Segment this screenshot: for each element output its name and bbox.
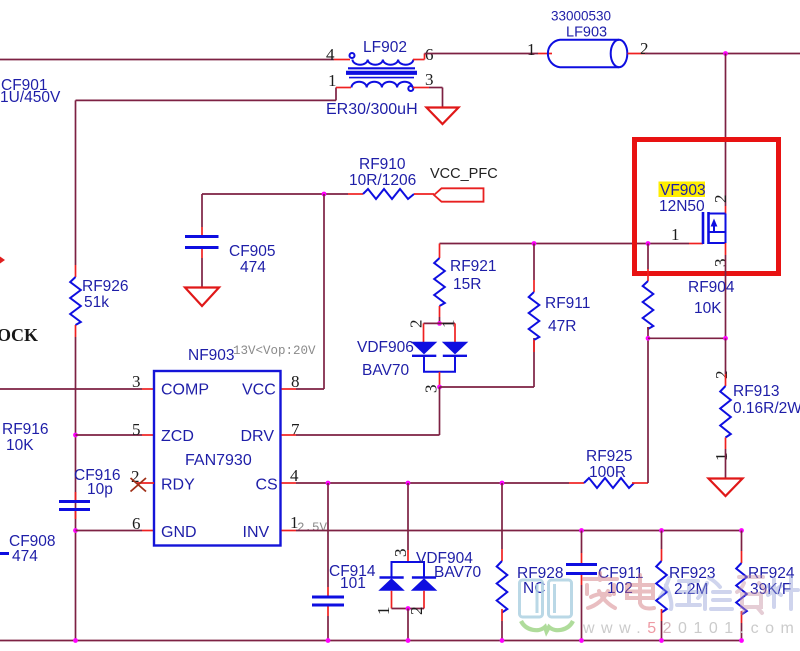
svg-text:3: 3 bbox=[425, 70, 434, 89]
wire RF921 to diode node bbox=[439, 317, 441, 323]
svg-text:51k: 51k bbox=[84, 294, 109, 311]
svg-text:RDY: RDY bbox=[161, 477, 195, 494]
svg-text:RF911: RF911 bbox=[545, 295, 590, 312]
ground symbol under RF913 bbox=[709, 479, 743, 497]
svg-text:10K: 10K bbox=[694, 300, 722, 317]
resistor RF921 bbox=[434, 258, 445, 306]
svg-text:CS: CS bbox=[256, 477, 278, 494]
wire jog pin6 to LF903 bbox=[424, 54, 426, 60]
wire CF901 node to LF902 pin 1 bbox=[76, 88, 352, 101]
resistor RF923 top lead bbox=[661, 531, 663, 562]
junction VDF904 anodes bbox=[406, 606, 411, 611]
svg-text:1: 1 bbox=[671, 225, 680, 244]
svg-text:VCC: VCC bbox=[242, 382, 276, 399]
wire cathode node to RF911 bottom bbox=[440, 386, 535, 388]
transistor VF903 highlighted reference bbox=[659, 182, 706, 200]
capacitor CF916 plates bbox=[59, 492, 90, 519]
svg-text:5: 5 bbox=[132, 420, 141, 439]
wire pin6 to LF903 pin 1 bbox=[425, 53, 539, 55]
transistor VF903 MOSFET symbol bbox=[703, 212, 726, 244]
highlight box around VF903 bbox=[635, 140, 779, 274]
svg-text:RF910: RF910 bbox=[359, 156, 406, 173]
wire drain column down bbox=[725, 54, 727, 207]
watermark chinese characters bbox=[584, 573, 798, 613]
wire VDF904 to rail bbox=[407, 609, 409, 641]
svg-text:15R: 15R bbox=[453, 276, 481, 293]
wire ZCD to IC bbox=[76, 434, 143, 436]
resistor RF911 stub top bbox=[533, 244, 535, 293]
junction node at top of MOSFET drain column bbox=[723, 51, 728, 56]
svg-text:474: 474 bbox=[12, 548, 38, 565]
svg-text:4: 4 bbox=[326, 45, 335, 64]
junction rail at RF923 bbox=[659, 638, 664, 643]
resistor RF926 stub bottom bbox=[75, 325, 77, 337]
svg-text:7: 7 bbox=[291, 420, 300, 439]
svg-text:10p: 10p bbox=[87, 481, 113, 498]
svg-text:474: 474 bbox=[240, 259, 266, 276]
svg-text:NF903: NF903 bbox=[188, 347, 235, 364]
svg-text:BAV70: BAV70 bbox=[434, 564, 481, 581]
svg-text:RF921: RF921 bbox=[450, 258, 497, 275]
resistor RF925 stub right bbox=[632, 482, 648, 484]
op-amp controller IC NF903 FAN7930 body bbox=[154, 371, 281, 546]
junction RF928 top bbox=[500, 481, 505, 486]
junction RF904 bottom bbox=[646, 336, 651, 341]
wire CF905 to ground bbox=[201, 258, 203, 287]
wire VCC column bbox=[282, 194, 325, 389]
COMP pin stub bbox=[142, 388, 154, 390]
wire source column down bbox=[725, 255, 727, 338]
junction rail at left column bbox=[73, 638, 78, 643]
resistor RF904 bbox=[643, 281, 654, 329]
junction rail at RF928 bbox=[500, 638, 505, 643]
junction source node bbox=[723, 336, 728, 341]
ZCD pin stub bbox=[142, 434, 154, 436]
svg-text:CF905: CF905 bbox=[229, 243, 276, 260]
pin 4 stub of LF902 bbox=[334, 59, 350, 61]
resistor RF925 bbox=[584, 478, 634, 488]
capacitor CF908 plate fragment at edge bbox=[0, 552, 9, 555]
resistor RF904 bottom lead bbox=[647, 327, 649, 338]
watermark book logo bbox=[520, 580, 572, 617]
resistor RF910 bbox=[363, 189, 414, 199]
resistor RF921 stub bottom bbox=[439, 306, 441, 317]
junction rail at RF924 bbox=[739, 638, 744, 643]
svg-text:1: 1 bbox=[527, 40, 536, 59]
resistor RF926 stub top bbox=[75, 265, 77, 277]
junction CF914 top bbox=[326, 481, 331, 486]
svg-text:6: 6 bbox=[132, 514, 141, 533]
wire DRV to cathode node bbox=[282, 387, 440, 435]
dual diode VDF904 top lead bbox=[407, 483, 409, 562]
drain stub red bbox=[725, 206, 727, 214]
svg-text:1: 1 bbox=[712, 453, 731, 462]
junction VDF904 top bbox=[406, 481, 411, 486]
svg-text:VCC_PFC: VCC_PFC bbox=[430, 166, 498, 182]
wire left column to bottom rail bbox=[75, 337, 77, 641]
svg-text:3: 3 bbox=[711, 259, 730, 268]
resistor RF928 top lead bbox=[501, 483, 503, 561]
transformer LF902 bottom winding bbox=[352, 82, 414, 91]
junction RF904 top / gate node bbox=[646, 241, 651, 246]
svg-text:DRV: DRV bbox=[241, 428, 275, 445]
resistor RF911 bottom lead bbox=[533, 338, 535, 387]
junction RF924 top bbox=[739, 528, 744, 533]
svg-text:2.5V: 2.5V bbox=[297, 521, 328, 535]
svg-text:VF903: VF903 bbox=[660, 182, 706, 199]
resistor RF904 top lead bbox=[647, 244, 649, 282]
red arrow fragment at left edge bbox=[0, 257, 5, 264]
resistor RF924 top lead bbox=[741, 531, 743, 564]
resistor RF925 stub left bbox=[569, 482, 584, 484]
svg-text:GND: GND bbox=[161, 524, 197, 541]
svg-text:LF903: LF903 bbox=[566, 25, 607, 41]
junction ZCD line on left column bbox=[73, 433, 78, 438]
wire CS line bbox=[282, 482, 570, 484]
svg-text:100R: 100R bbox=[589, 464, 626, 481]
junction VDF906 anode bracket bbox=[437, 321, 442, 326]
svg-text:1: 1 bbox=[374, 607, 393, 616]
resistor RF910 stub left bbox=[348, 193, 363, 195]
GND pin stub bbox=[142, 530, 154, 532]
capacitor CF911 top lead bbox=[581, 531, 583, 564]
wire RF925 up to source node bbox=[647, 338, 649, 483]
resistor RF924 bottom lead bbox=[741, 611, 743, 641]
junction VCC column on PFC rail bbox=[322, 192, 327, 197]
dual diode VDF906 bbox=[411, 323, 469, 387]
svg-text:10R/1206: 10R/1206 bbox=[349, 172, 416, 189]
svg-text:LF902: LF902 bbox=[363, 39, 407, 56]
wire top rail to LF902 pin 4 bbox=[0, 59, 334, 61]
svg-text:2: 2 bbox=[712, 371, 731, 380]
wire left column down from CF901 node bbox=[75, 100, 77, 265]
COMP wire from left edge bbox=[0, 388, 142, 390]
svg-text:3: 3 bbox=[391, 549, 410, 558]
pin 1 stub of LF903 bbox=[538, 53, 552, 55]
svg-text:1: 1 bbox=[439, 320, 458, 329]
pin 6 stub of LF902 bbox=[413, 59, 425, 61]
resistor RF913 bbox=[720, 386, 731, 438]
svg-text:RF904: RF904 bbox=[688, 279, 735, 296]
junction CF911 top bbox=[579, 528, 584, 533]
transformer LF902 top winding bbox=[350, 53, 414, 65]
wire pin 3 of LF902 to ground bbox=[413, 88, 443, 108]
svg-text:1: 1 bbox=[328, 71, 337, 90]
wire source cross link bbox=[648, 337, 726, 339]
dual diode VDF904 bbox=[378, 562, 437, 609]
ground symbol under CF905 bbox=[185, 288, 219, 307]
svg-text:101: 101 bbox=[340, 575, 366, 592]
svg-text:6: 6 bbox=[425, 45, 434, 64]
capacitor CF914 bbox=[312, 597, 344, 605]
junction VDF906 cathode node bbox=[437, 385, 442, 390]
junction GND line on left column bbox=[73, 528, 78, 533]
pin 2 stub of LF903 bbox=[628, 53, 646, 55]
junction RF923 top bbox=[659, 528, 664, 533]
resistor RF924 bbox=[736, 563, 747, 615]
svg-text:RF916: RF916 bbox=[2, 421, 49, 438]
capacitor CF911 bottom lead bbox=[581, 575, 583, 641]
svg-text:OCK: OCK bbox=[0, 325, 38, 345]
gate drive line bbox=[440, 243, 690, 245]
junction rail at CF911 bbox=[579, 638, 584, 643]
svg-text:0.16R/2W: 0.16R/2W bbox=[733, 400, 800, 417]
svg-text:VDF906: VDF906 bbox=[357, 339, 414, 356]
capacitor CF914 bottom lead bbox=[327, 607, 329, 641]
resistor RF928 bottom lead bbox=[501, 609, 503, 641]
wire VCC_PFC rail bbox=[202, 193, 348, 195]
capacitor CF914 top lead bbox=[327, 483, 329, 596]
resistor RF923 bbox=[656, 561, 667, 613]
capacitor CF905 top wire bbox=[201, 194, 203, 227]
svg-text:www.520101.com: www.520101.com bbox=[582, 620, 800, 637]
resistor RF913 top lead bbox=[725, 338, 727, 386]
svg-text:BAV70: BAV70 bbox=[362, 362, 409, 379]
svg-text:10K: 10K bbox=[6, 437, 34, 454]
svg-text:2: 2 bbox=[407, 320, 426, 329]
svg-text:ZCD: ZCD bbox=[161, 428, 194, 445]
svg-text:13V<Vop:20V: 13V<Vop:20V bbox=[233, 344, 316, 358]
ground rail at bottom bbox=[0, 640, 742, 642]
source stub red bbox=[725, 243, 727, 255]
junction RF911 top bbox=[532, 241, 537, 246]
resistor RF926 bbox=[70, 277, 81, 325]
wire LF903 to right edge bbox=[645, 53, 800, 55]
svg-text:FAN7930: FAN7930 bbox=[185, 452, 252, 469]
svg-text:RF924: RF924 bbox=[748, 565, 795, 582]
ground symbol under LF902 pin 3 bbox=[427, 108, 459, 125]
inductor LF903 cylinder body bbox=[548, 40, 627, 67]
svg-text:1U/450V: 1U/450V bbox=[0, 89, 61, 106]
svg-text:ER30/300uH: ER30/300uH bbox=[326, 101, 418, 118]
svg-text:COMP: COMP bbox=[161, 382, 209, 399]
resistor RF928 bbox=[497, 561, 508, 613]
capacitor CF905 bbox=[185, 227, 219, 258]
svg-text:3: 3 bbox=[132, 372, 141, 391]
svg-text:12N50: 12N50 bbox=[659, 198, 705, 215]
svg-text:2: 2 bbox=[711, 195, 730, 204]
svg-text:RF926: RF926 bbox=[82, 278, 129, 295]
RDY pin stub with no-connect X bbox=[131, 478, 155, 492]
resistor RF913 bottom lead bbox=[725, 438, 727, 479]
resistor RF911 bbox=[529, 292, 540, 340]
svg-text:RF913: RF913 bbox=[733, 383, 780, 400]
svg-text:33000530: 33000530 bbox=[551, 9, 611, 24]
capacitor CF911 bbox=[566, 565, 597, 574]
svg-text:RF925: RF925 bbox=[586, 448, 633, 465]
resistor RF921 stub top bbox=[439, 244, 441, 259]
wire GND to IC bbox=[76, 530, 143, 532]
resistor RF911 stub bottom bbox=[533, 340, 535, 352]
watermark book underline bbox=[521, 621, 573, 632]
transformer LF902 core bars bbox=[346, 68, 417, 77]
svg-text:47R: 47R bbox=[548, 318, 576, 335]
resistor RF910 stub right bbox=[414, 193, 434, 195]
gate stub red bbox=[689, 243, 703, 245]
junction rail at CF914 bbox=[326, 638, 331, 643]
wire INV line bbox=[282, 530, 742, 532]
svg-text:INV: INV bbox=[243, 524, 270, 541]
net flag VCC_PFC bbox=[434, 188, 484, 201]
svg-text:2: 2 bbox=[640, 39, 649, 58]
junction rail at VDF904 bbox=[406, 638, 411, 643]
resistor RF923 bottom lead bbox=[661, 609, 663, 641]
